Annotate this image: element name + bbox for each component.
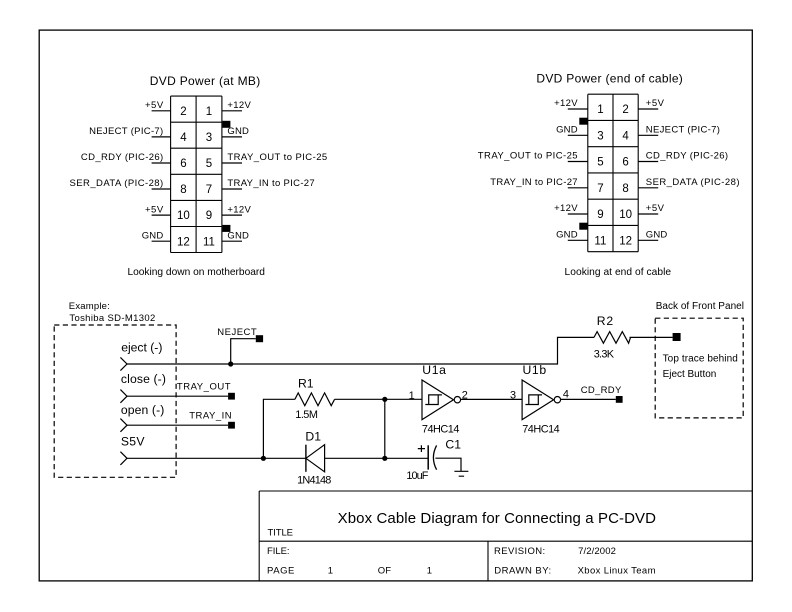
wire U1b out to CD_RDY (561, 398, 616, 400)
connector J2 left pin stubs (568, 109, 588, 240)
net terminal square NEJECT (256, 335, 263, 342)
connector chevron close (120, 390, 127, 403)
svg-text:1: 1 (328, 565, 333, 576)
svg-text:CD_RDY (PIC-26): CD_RDY (PIC-26) (81, 152, 163, 163)
svg-text:TRAY_IN to PIC-27: TRAY_IN to PIC-27 (490, 177, 577, 188)
svg-text:PAGE: PAGE (267, 565, 294, 576)
svg-text:6: 6 (622, 157, 628, 169)
svg-text:Eject Button: Eject Button (663, 369, 717, 380)
svg-text:GND: GND (227, 230, 249, 241)
svg-text:3: 3 (206, 132, 212, 144)
connector J2 pin3 GND polarity square (579, 118, 588, 125)
svg-text:8: 8 (622, 183, 628, 195)
svg-text:2: 2 (180, 106, 186, 118)
wire S5V rail (127, 457, 428, 459)
connector J2 pin numbers (594, 104, 632, 247)
svg-text:74HC14: 74HC14 (422, 424, 460, 436)
svg-text:7: 7 (597, 183, 603, 195)
svg-text:+12V: +12V (554, 98, 578, 109)
svg-text:SER_DATA (PIC-28): SER_DATA (PIC-28) (646, 177, 740, 188)
resistor R1 zigzag (295, 393, 335, 406)
junction S5V/R1 left (261, 456, 266, 461)
svg-text:1.5M: 1.5M (295, 409, 318, 421)
ground symbol (454, 471, 468, 476)
svg-text:3.3K: 3.3K (594, 348, 615, 360)
svg-text:Example:: Example: (69, 301, 110, 312)
svg-text:+12V: +12V (227, 204, 251, 215)
svg-text:4: 4 (180, 132, 187, 144)
op-amp U1b hysteresis glyph (525, 395, 542, 405)
svg-text:3: 3 (597, 130, 603, 142)
svg-text:11: 11 (594, 235, 606, 247)
net terminal square front panel trace (673, 333, 681, 341)
svg-text:10: 10 (177, 210, 190, 222)
connector J2 pin11 GND polarity square (579, 223, 588, 230)
connector chevron eject (120, 357, 127, 370)
connector J2 left pin labels (478, 98, 578, 240)
svg-text:D1: D1 (305, 430, 321, 444)
wire NEJECT branch (231, 339, 256, 364)
svg-text:REVISION:: REVISION: (494, 546, 545, 557)
connector J1 left pin labels (70, 100, 164, 241)
svg-text:GND: GND (556, 230, 578, 241)
svg-text:11: 11 (203, 236, 215, 248)
svg-text:Xbox Cable Diagram for Connect: Xbox Cable Diagram for Connecting a PC-D… (338, 510, 657, 527)
wire close to TRAY_OUT (127, 395, 228, 397)
op-amp U1b inverter triangle (522, 380, 554, 420)
svg-text:GND: GND (646, 230, 668, 241)
connector J1 table grid (at MB) (171, 96, 222, 252)
svg-text:TRAY_IN to PIC-27: TRAY_IN to PIC-27 (227, 178, 314, 189)
svg-text:TRAY_IN: TRAY_IN (189, 411, 232, 422)
connector J1 pin11 GND polarity square (222, 225, 230, 232)
connector chevron S5V (120, 452, 127, 465)
title block frame (259, 491, 752, 581)
svg-text:NEJECT (PIC-7): NEJECT (PIC-7) (646, 125, 720, 136)
svg-text:2: 2 (622, 104, 628, 116)
svg-text:Back of Front Panel: Back of Front Panel (656, 301, 744, 312)
wire eject to R2 (127, 337, 594, 364)
svg-text:4: 4 (563, 388, 569, 400)
svg-text:+5V: +5V (646, 98, 665, 109)
svg-text:Xbox Linux Team: Xbox Linux Team (578, 565, 656, 576)
connector J1 right pin stubs (222, 111, 242, 241)
svg-text:7: 7 (206, 184, 212, 196)
svg-text:FILE:: FILE: (267, 546, 290, 557)
svg-text:+12V: +12V (227, 100, 251, 111)
op-amp U1a inverter triangle (422, 380, 454, 420)
connector J2 right pin labels (646, 98, 740, 240)
capacitor C1 curved plate (433, 445, 436, 469)
svg-text:+12V: +12V (554, 203, 578, 214)
wire R1 right leg (335, 398, 422, 400)
svg-text:GND: GND (142, 230, 164, 241)
wire C1 to ground (435, 458, 461, 471)
connector J1 left pin stubs (152, 111, 171, 241)
svg-text:Looking at end of cable: Looking at end of cable (565, 267, 672, 278)
wire R1 left leg (263, 399, 295, 458)
junction eject/NEJECT (228, 361, 233, 366)
svg-text:DRAWN BY:: DRAWN BY: (494, 565, 551, 576)
connector J2 right pin stubs (638, 109, 658, 240)
svg-text:GND: GND (227, 126, 249, 137)
op-amp U1a output bubble (454, 397, 460, 403)
svg-text:+5V: +5V (145, 100, 164, 111)
svg-text:OF: OF (378, 565, 392, 576)
svg-text:1: 1 (409, 390, 415, 402)
net terminal square TRAY_IN (228, 422, 235, 429)
svg-text:NEJECT: NEJECT (217, 327, 257, 338)
svg-text:+5V: +5V (145, 204, 164, 215)
wire R1 node down to S5V (384, 399, 386, 458)
svg-text:6: 6 (180, 158, 186, 170)
junction S5V/R1 right (382, 456, 387, 461)
svg-text:S5V: S5V (121, 435, 145, 449)
svg-text:TRAY_OUT to PIC-25: TRAY_OUT to PIC-25 (478, 151, 578, 162)
svg-text:12: 12 (177, 236, 190, 248)
svg-text:TITLE: TITLE (268, 528, 294, 539)
svg-text:Top trace behind: Top trace behind (663, 353, 738, 364)
svg-text:5: 5 (206, 158, 212, 170)
wire R2 to front panel (630, 336, 673, 338)
svg-text:12: 12 (619, 235, 632, 247)
svg-text:U1b: U1b (523, 363, 547, 377)
wire open to TRAY_IN (127, 424, 228, 426)
op-amp U1a hysteresis glyph (425, 395, 442, 405)
svg-text:U1a: U1a (422, 363, 446, 377)
svg-text:Toshiba SD-M1302: Toshiba SD-M1302 (69, 313, 155, 324)
svg-text:9: 9 (597, 209, 603, 221)
svg-text:5: 5 (597, 157, 603, 169)
connector chevron open (120, 419, 127, 432)
svg-text:9: 9 (206, 210, 212, 222)
svg-text:+5V: +5V (646, 203, 665, 214)
connector J1 right pin labels (227, 100, 327, 241)
svg-text:close (-): close (-) (121, 372, 166, 386)
resistor R2 zigzag (594, 332, 631, 344)
svg-text:4: 4 (622, 130, 629, 142)
diode D1 triangle (306, 445, 325, 472)
svg-text:SER_DATA (PIC-28): SER_DATA (PIC-28) (70, 178, 164, 189)
svg-text:DVD Power (end of cable): DVD Power (end of cable) (536, 72, 682, 86)
svg-text:10: 10 (619, 209, 632, 221)
svg-text:open (-): open (-) (121, 403, 164, 417)
svg-text:CD_RDY (PIC-26): CD_RDY (PIC-26) (646, 151, 728, 162)
svg-text:R1: R1 (298, 376, 314, 390)
svg-text:1: 1 (427, 565, 432, 576)
svg-text:3: 3 (510, 389, 516, 401)
svg-text:DVD Power (at MB): DVD Power (at MB) (150, 74, 261, 88)
svg-text:1: 1 (597, 104, 603, 116)
svg-text:10uF: 10uF (406, 470, 428, 482)
op-amp U1b output bubble (554, 397, 560, 403)
svg-text:TRAY_OUT to PIC-25: TRAY_OUT to PIC-25 (227, 152, 327, 163)
svg-text:R2: R2 (597, 314, 614, 328)
net terminal square CD_RDY (616, 396, 623, 403)
svg-text:74HC14: 74HC14 (522, 424, 560, 436)
capacitor C1 left plate (427, 445, 429, 469)
svg-text:Looking down on motherboard: Looking down on motherboard (127, 267, 265, 278)
capacitor C1 plus sign (418, 445, 425, 452)
svg-text:NEJECT (PIC-7): NEJECT (PIC-7) (89, 126, 163, 137)
connector J1 pin3 GND polarity square (222, 121, 230, 128)
svg-text:1: 1 (206, 106, 212, 118)
wire U1a out to U1b in (461, 398, 522, 400)
front panel dashed box (655, 318, 743, 418)
junction R1/U1a node (382, 397, 387, 402)
svg-text:7/2/2002: 7/2/2002 (578, 546, 616, 557)
drive example dashed box (54, 325, 176, 477)
connector J2 table grid (end of cable) (588, 94, 638, 252)
svg-text:TRAY_OUT: TRAY_OUT (177, 381, 231, 392)
svg-text:1N4148: 1N4148 (297, 475, 331, 487)
svg-text:C1: C1 (445, 438, 461, 452)
svg-text:CD_RDY: CD_RDY (581, 385, 622, 396)
connector J1 pin numbers (177, 106, 215, 248)
diode D1 cathode bar (305, 445, 307, 472)
svg-text:GND: GND (556, 125, 578, 136)
net terminal square TRAY_OUT (228, 393, 235, 400)
svg-text:eject (-): eject (-) (121, 341, 162, 355)
svg-text:8: 8 (180, 184, 186, 196)
